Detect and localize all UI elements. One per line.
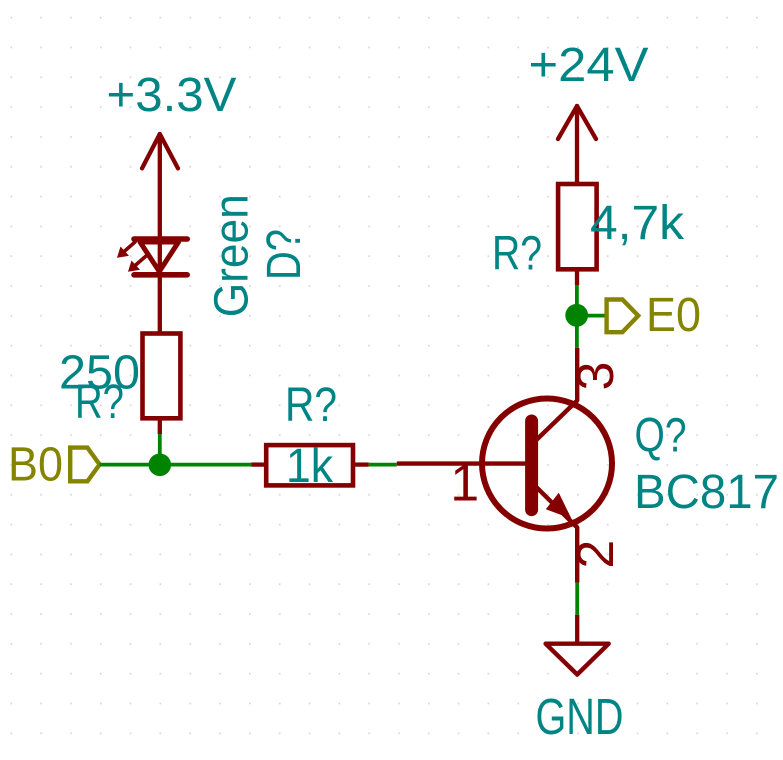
LED D? symbol [134, 239, 187, 275]
svg-text:Q?: Q? [635, 410, 687, 463]
transistor Q1 base pin wire [397, 461, 526, 465]
LED emission arrow lower [128, 256, 146, 272]
power symbol +24V arrow [558, 106, 596, 184]
wire R2 to Q1 base pin [369, 463, 397, 467]
wire emitter to GND [575, 583, 579, 615]
LED emission arrow upper [117, 242, 135, 258]
wire R1 to junction [158, 434, 162, 465]
svg-text:R?: R? [285, 379, 337, 432]
emitter pin wire [575, 528, 579, 583]
svg-text:1k: 1k [286, 440, 334, 493]
transistor emitter arrow [546, 493, 572, 519]
resistor R? 4,7k body [558, 184, 597, 269]
wire junction to resistor R2 [160, 463, 251, 467]
svg-text:Green: Green [206, 194, 259, 317]
hierarchical label B0 [8, 439, 100, 492]
wire B0 to junction [100, 463, 160, 467]
pin wire R3 bottom [575, 269, 579, 285]
svg-text:R?: R? [75, 376, 124, 429]
ground symbol GND [546, 615, 609, 675]
svg-text:+24V: +24V [529, 39, 649, 92]
svg-text:D?: D? [258, 229, 311, 280]
svg-text:E0: E0 [646, 289, 701, 342]
collector pin wire [575, 348, 579, 401]
svg-text:B0: B0 [8, 439, 63, 492]
junction at B0 node [149, 454, 172, 477]
transistor emitter stroke [536, 487, 577, 528]
power symbol +3.3V arrow [142, 134, 178, 238]
pin wire LED cathode to resistor R1 [158, 275, 162, 334]
resistor R? 1k body [266, 445, 353, 485]
svg-text:3: 3 [567, 362, 625, 391]
svg-text:4,7k: 4,7k [590, 197, 685, 250]
svg-text:R?: R? [492, 228, 542, 281]
hierarchical label E0 [607, 289, 701, 342]
svg-text:+3.3V: +3.3V [107, 69, 237, 122]
transistor base bar [525, 421, 538, 510]
pin wire R2 left [251, 462, 266, 466]
junction at E0 node [565, 304, 588, 327]
pin wire R1 bottom [158, 418, 162, 434]
transistor Q? BC817 body circle [482, 399, 612, 529]
resistor R? 250 body [143, 334, 181, 419]
transistor collector stroke [536, 401, 577, 441]
wire stub junction to E0 label [577, 314, 607, 318]
wire R3 to junction E0 [575, 285, 579, 315]
wire junction to collector [575, 315, 579, 348]
svg-text:GND: GND [536, 688, 624, 745]
svg-text:BC817: BC817 [634, 466, 779, 519]
pin wire R2 right [353, 462, 369, 466]
svg-text:2: 2 [567, 540, 625, 569]
svg-text:1: 1 [450, 455, 479, 513]
